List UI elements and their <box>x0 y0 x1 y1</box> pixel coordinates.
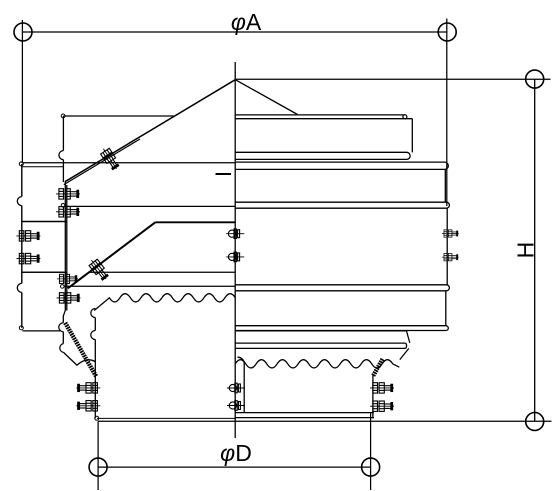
dimension phiA line <box>23 31 447 33</box>
dimension H bottom reference line (roof base line) <box>98 420 551 422</box>
bolt on duct wall upper <box>57 274 78 283</box>
joggle notch lower <box>17 283 22 292</box>
roof cone left slope inner parallel line <box>64 139 140 185</box>
bolt on roof slope (rotated) <box>99 146 121 172</box>
dimension H line <box>534 79 536 421</box>
right curb box outer wall <box>372 376 374 419</box>
flashing hem short line left <box>22 166 64 168</box>
skirt upper line right <box>235 331 410 343</box>
bolt on left curb wall lower (pointing left) <box>76 401 100 411</box>
flashing box top line <box>22 221 67 223</box>
skirt band right with rounded end <box>235 343 406 348</box>
band2 bottom seam left y206 <box>64 205 235 207</box>
joggle notch upper <box>17 197 22 206</box>
rolled bottom end of outer flashing <box>19 326 23 330</box>
bolt on band1 left wall lower <box>56 207 80 217</box>
bolt at centerline band3 upper <box>226 229 244 239</box>
rolled corner circle at top band left <box>61 114 65 118</box>
band2 right wall <box>444 169 446 202</box>
rolled top end of outer flashing <box>19 162 23 166</box>
inner cone sloped wall (section) <box>68 222 156 288</box>
left apron flashing profile <box>63 311 95 366</box>
svg-text:H: H <box>512 242 538 259</box>
left curb box wall with joggle notches <box>94 318 96 419</box>
top band upper edge left (section) <box>63 115 174 117</box>
centerline <box>234 62 236 438</box>
inner cone rim line (section) <box>155 221 235 223</box>
left curb box bottom line <box>97 417 235 419</box>
right curb inner duct wall with rounded top <box>238 357 245 412</box>
support strut right (hatched) <box>373 359 383 376</box>
skirt stub line left <box>23 330 61 332</box>
bolt on band1 left wall upper <box>56 189 80 199</box>
dimension phiA left terminator circle <box>14 23 32 41</box>
band seam line left y163 <box>22 162 235 164</box>
bolt at centerline curb lower <box>227 401 245 411</box>
bolt on right curb wall lower <box>370 401 394 411</box>
rolled end circle at seam left <box>61 204 65 208</box>
dimension phiD left terminator circle <box>89 458 107 476</box>
flashing box bottom line <box>22 271 67 273</box>
left curb wall bottom rolled end <box>95 416 99 420</box>
bolt on right curb wall upper <box>370 383 394 393</box>
outer flashing left vertical with joggle notches <box>21 164 23 328</box>
svg-text:φD: φD <box>220 440 252 466</box>
right curb box bottom flange double line <box>235 413 374 418</box>
support strut left (hatched) <box>65 323 96 377</box>
top band right wall <box>411 119 413 153</box>
bolt at centerline band3 lower <box>226 252 244 262</box>
dash mark near centerline <box>216 173 232 175</box>
rolled end circle at band4 seam left <box>61 285 65 289</box>
dimension phiD left extension line <box>97 421 99 490</box>
bolt pair on outer flashing lower <box>16 253 40 263</box>
dimension H top terminator circle <box>526 70 544 88</box>
wavy break line right curb top <box>235 360 399 368</box>
bolt at centerline curb upper <box>227 383 245 393</box>
roof cone left slope (section) <box>65 80 236 182</box>
wavy break line left curb top <box>94 294 235 311</box>
main duct left wall (double) <box>65 182 67 311</box>
band3 right wall <box>446 208 448 285</box>
dimension phiD right terminator circle <box>362 458 380 476</box>
band seam left y272 inner segment <box>89 271 236 273</box>
left curb wall joggle notch <box>91 309 96 340</box>
band1 left wall with notch <box>62 116 64 182</box>
bolt on band3 right wall lower <box>442 254 459 261</box>
band2 top roll tube right <box>235 162 448 169</box>
svg-text:φA: φA <box>231 9 262 35</box>
skirt side slope to box right <box>400 348 409 359</box>
bolt pair on outer flashing upper <box>16 231 40 241</box>
top band upper rolled end <box>403 115 407 119</box>
band1 left wall joggle notch <box>59 151 64 160</box>
top band upper edge right double line <box>235 115 412 119</box>
top band bottom roll tube right <box>235 152 410 159</box>
dimension phiA left extension line <box>21 20 23 163</box>
band2 bottom roll tube right <box>235 202 449 208</box>
dimension H bottom terminator circle <box>526 413 544 431</box>
band4 bottom roll right <box>235 326 448 331</box>
dimension phiA right terminator circle <box>438 23 456 41</box>
dimension phiA right extension line <box>446 19 448 207</box>
dimension phiD right extension line <box>370 413 372 490</box>
band3 bottom roll tube right <box>235 285 449 291</box>
roof cone right silhouette edge <box>235 80 297 115</box>
bolt on band3 right wall upper <box>442 230 459 237</box>
band4 right wall <box>445 291 447 326</box>
bolt on duct wall lower <box>57 293 81 303</box>
dimension H top reference line <box>235 78 550 80</box>
band4 top seam left y286 <box>64 285 235 287</box>
band seam left y272 outer segment <box>22 271 67 273</box>
apron joggle notch lower <box>60 344 64 353</box>
bolt on inner cone slope (rotated) <box>87 257 110 282</box>
dimension phiD line <box>98 466 371 468</box>
bolt on left curb wall upper (pointing left) <box>76 383 100 393</box>
apron joggle notch upper <box>59 323 64 332</box>
